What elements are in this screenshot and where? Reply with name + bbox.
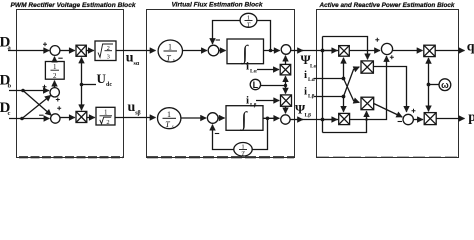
node sign + at S9 top (412, 109, 416, 113)
gain block 1/2 (45, 62, 64, 81)
integrator block A (227, 39, 264, 65)
wire integrator B to summer S7 (263, 117, 279, 119)
multiplier M6 (PsiLa x iLb) (361, 61, 373, 73)
summing junction S7 (flux beta) (281, 115, 290, 124)
wire iLb input (314, 96, 344, 98)
wire iLb down into M7 (343, 97, 345, 112)
gain ellipse 1/T (beta feedback) (234, 143, 252, 158)
svg-text:i: i (304, 69, 307, 81)
svg-text:Virtual Flux Estimation Block: Virtual Flux Estimation Block (172, 2, 263, 9)
wire Db diagonal to S3 (23, 91, 51, 116)
svg-text:c: c (8, 110, 11, 117)
wire L to multipliers (261, 85, 286, 87)
wire PsiLb into M7 (323, 119, 338, 121)
svg-text:PWM Rectifier Voltage Estimati: PWM Rectifier Voltage Estimation Block (10, 2, 135, 9)
summing junction S8 (q) (381, 43, 392, 54)
wire PsiLa line inside power block (323, 50, 338, 52)
label Udc (97, 71, 113, 88)
multiplier M8 (PsiLb x iLa) (361, 97, 374, 110)
svg-text:Lα: Lα (310, 63, 318, 69)
wire iLa diagonal to M8 (344, 79, 360, 103)
svg-text:s: s (172, 125, 174, 130)
multiplier M10 (p x omega) (424, 113, 436, 125)
multiplier M3 (L * iLa) (280, 64, 291, 75)
svg-text:1: 1 (53, 63, 57, 71)
wire integrator A to summer S6 (264, 50, 280, 52)
multiplier M1 (76, 45, 86, 56)
wire 1/Ts to summer S5 (181, 117, 206, 119)
wire top feed to M6 (323, 37, 368, 60)
block boundary: power estimation box (317, 10, 459, 158)
label iLa (flux block) (246, 61, 258, 75)
multiplier M5 (PsiLa x iLa) (339, 46, 350, 57)
wire usb output to flux block (115, 117, 156, 119)
feedback wire down to 1/T ellipse (beta) (252, 118, 267, 149)
svg-text:sα: sα (134, 61, 140, 67)
multiplier M2 (76, 111, 87, 122)
wire M5 to summer S8 (349, 50, 380, 52)
summing junction S9 (p) (403, 114, 413, 124)
wire flux beta output to power block (290, 119, 303, 121)
multiplier M4 (L * iLb) (281, 95, 292, 106)
svg-text:i: i (304, 85, 307, 97)
svg-text:i: i (246, 95, 249, 107)
node sign - at S5 bottom (215, 133, 219, 135)
block boundary: voltage estimation box (17, 10, 124, 158)
wire flux alpha output to power block (291, 50, 303, 52)
node junction Db (21, 89, 25, 93)
svg-text:∫: ∫ (239, 109, 248, 132)
svg-text:3: 3 (107, 53, 110, 60)
summing junction S4 (208, 45, 219, 56)
inductance circle L (250, 79, 260, 90)
label iLb (gap) (304, 85, 315, 99)
feedback wire from 1/T into S4 top (213, 21, 241, 45)
svg-text:i: i (246, 61, 249, 73)
wire M3 up into S6 (285, 56, 287, 65)
node junction PsiLb tap (321, 118, 325, 122)
wire Da to summer S1 (8, 50, 49, 52)
node sign + at S1 (43, 42, 47, 46)
wire 1/Ts to summer S4 (183, 50, 207, 52)
svg-text:1: 1 (104, 109, 108, 117)
wire scan-dark bottom border left box (19, 156, 123, 158)
wire q output (435, 50, 464, 52)
wire iLa up into M5 (343, 58, 345, 79)
node sign + at S8 left (375, 38, 379, 42)
label iLb (flux block) (246, 95, 257, 109)
wire S8 to multiplier M9 (392, 50, 422, 52)
wire S1 to multiplier M1 (60, 50, 75, 52)
wire Db to summer S2 (9, 90, 49, 92)
multiplier M7 (PsiLb x iLb) (339, 113, 350, 124)
label usb (128, 100, 141, 117)
summing junction S1 (50, 46, 60, 56)
integrator block B (226, 106, 263, 132)
wire M4 down into S7 (285, 106, 287, 113)
input label Da (0, 34, 12, 51)
wire M2 to gain 1/sqrt2 (87, 117, 95, 119)
svg-text:Lα: Lα (250, 69, 258, 75)
svg-text:2: 2 (53, 72, 57, 80)
svg-text:T: T (247, 22, 251, 29)
wire iLb into M4 (256, 100, 279, 102)
wire S4 to integrator A (219, 50, 226, 52)
svg-text:U: U (97, 71, 107, 86)
label usa (126, 51, 140, 68)
wire cross vertical (PsiLa/PsiLb feeds) (322, 37, 324, 133)
svg-text:2: 2 (107, 45, 110, 52)
gain ellipse 1/Ts (beta) (158, 108, 181, 131)
node crossing blob (365, 118, 368, 121)
svg-text:1: 1 (167, 110, 171, 119)
node sign + at S3 upper right (57, 106, 61, 110)
node junction Udc (80, 83, 84, 87)
svg-text:dc: dc (106, 82, 112, 88)
wire bottom feed to M8 (323, 111, 367, 132)
node junction after integrator A (269, 49, 273, 53)
node sign - below S1 (58, 57, 62, 59)
gain block sqrt(2/3) (95, 41, 116, 61)
node junction Dc (20, 117, 24, 121)
node sign - at S9 left (398, 121, 402, 123)
input label Dc (0, 100, 11, 117)
gain ellipse 1/T (alpha feedback) (240, 13, 257, 28)
wire Udc label stub (82, 84, 97, 86)
node junction after integrator B (266, 117, 270, 121)
node junction omega (427, 83, 431, 87)
wire usa output to flux block (116, 50, 156, 52)
wire scan-dark bottom border middle box (147, 156, 294, 158)
wire summer S2 up to 1/2 block (54, 81, 56, 88)
wire M8 diagonal to p summer (374, 104, 403, 118)
wire M6 output to p summer top (373, 67, 406, 112)
node junction PsiLa tap (321, 49, 325, 53)
svg-text:T: T (241, 151, 245, 158)
label iLa (gap) (304, 69, 316, 83)
block boundary: virtual flux box (147, 10, 295, 158)
node sign - at S4 top (216, 39, 220, 41)
svg-text:Active and Reactive Power Esti: Active and Reactive Power Estimation Blo… (319, 2, 455, 9)
node sign + at S2 left (43, 85, 47, 89)
svg-text:s: s (173, 58, 175, 63)
svg-text:2: 2 (106, 119, 109, 126)
svg-text:Lβ: Lβ (305, 113, 312, 119)
wire iLa input (314, 78, 344, 80)
wire p output (436, 118, 464, 120)
wire S9 to multiplier M10 (413, 119, 423, 121)
wire scan-dark bottom border right box (317, 156, 458, 158)
svg-text:ω: ω (441, 80, 449, 90)
feedback wire up to 1/T ellipse (alpha) (257, 21, 271, 51)
feedback wire from 1/T into S5 bottom (213, 125, 234, 150)
svg-text:p: p (468, 110, 474, 125)
summing junction S6 (flux alpha) (281, 45, 291, 55)
svg-text:b: b (8, 83, 12, 90)
wire S5 to integrator B (218, 117, 225, 119)
gain ellipse 1/Ts (alpha) (158, 40, 182, 63)
svg-text:sβ: sβ (135, 111, 141, 117)
source circle omega (439, 79, 451, 91)
node sign + at S2 lower right (56, 98, 60, 102)
svg-text:L: L (253, 80, 259, 90)
multiplier M9 (q x omega) (424, 45, 435, 56)
summing junction S2 (50, 88, 59, 97)
label PsiLa (gap) (301, 52, 318, 69)
wire M1 to gain sqrt(2/3) (86, 50, 94, 52)
svg-text:1: 1 (241, 143, 244, 150)
wire S3 to multiplier M2 (60, 117, 75, 119)
svg-text:T: T (166, 54, 171, 63)
svg-text:1: 1 (247, 14, 250, 21)
node sign - at S3 left (39, 114, 43, 116)
input label Db (0, 72, 12, 89)
svg-text:T: T (165, 120, 170, 129)
wire 1/2 block up to S1 (54, 57, 56, 62)
svg-text:q: q (467, 39, 474, 54)
svg-text:1: 1 (168, 43, 172, 52)
label PsiLb (gap) (295, 101, 311, 118)
wire iLb diagonal to M6 (344, 67, 360, 97)
wire iLa into M3 (257, 69, 279, 71)
summing junction S5 (207, 113, 218, 124)
wire Udc vertical feeding M1 and M2 (81, 58, 83, 85)
wire Dc to summer S3 (9, 118, 49, 120)
wire omega vertical feeding M9 and M10 (428, 58, 430, 85)
wire M7 output to q summer bottom (350, 56, 387, 120)
summing junction S3 (51, 114, 60, 123)
wire omega stub (429, 84, 439, 86)
wire Dc diagonal to S2 (22, 95, 51, 118)
gain block 1/sqrt2 (96, 107, 115, 126)
node sign + at S8 bottom (390, 55, 394, 59)
